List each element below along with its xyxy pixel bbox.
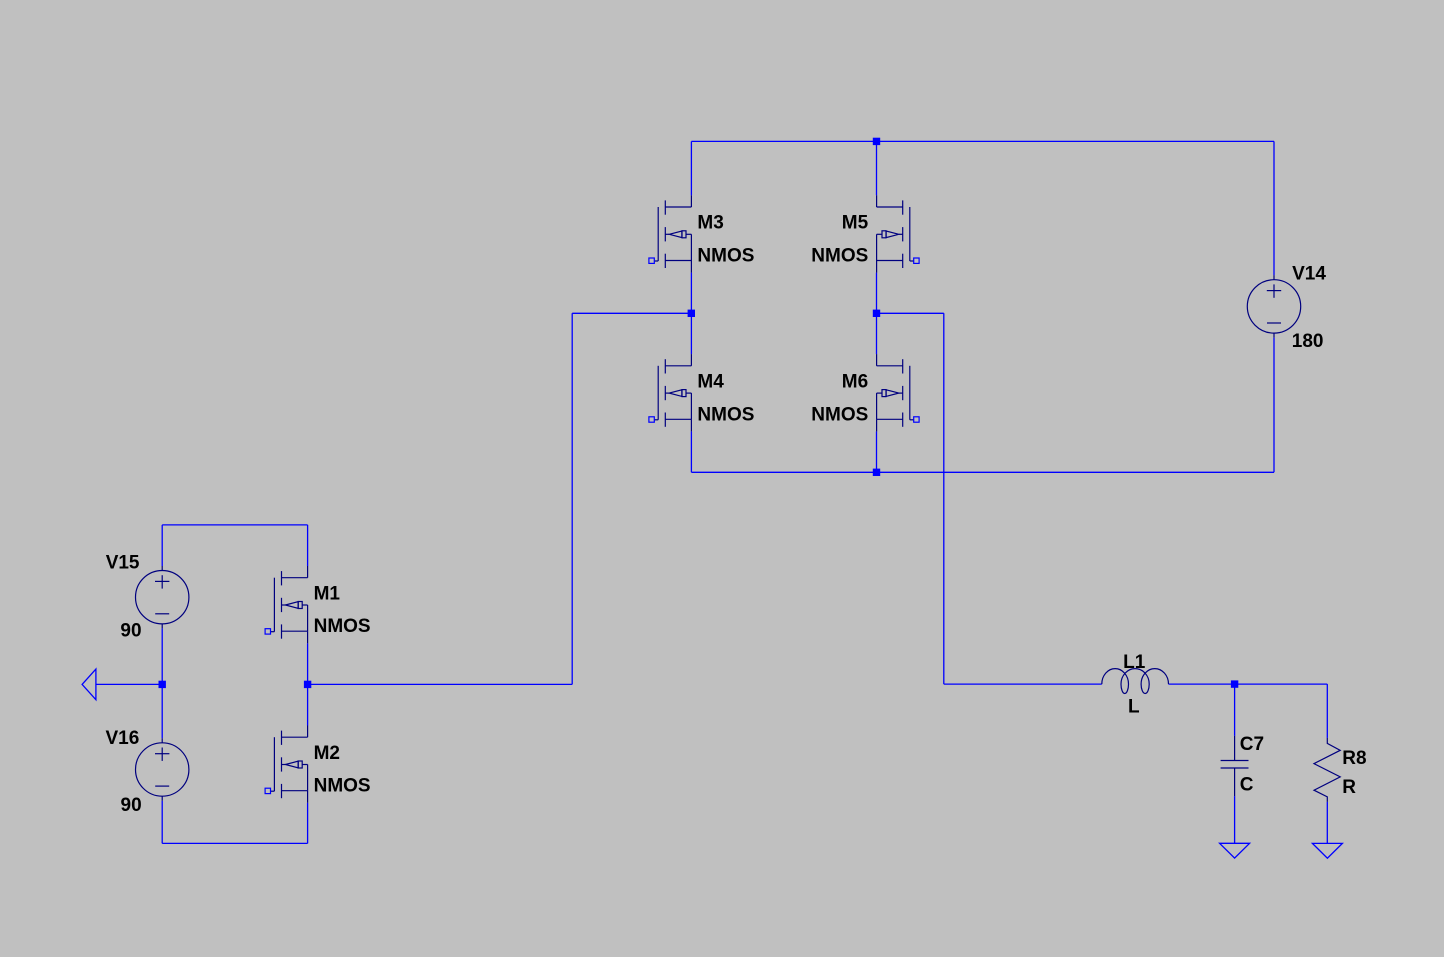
svg-text:M1: M1	[314, 583, 341, 604]
svg-text:C: C	[1240, 774, 1254, 795]
svg-text:NMOS: NMOS	[314, 776, 371, 797]
svg-text:NMOS: NMOS	[697, 404, 754, 425]
svg-text:NMOS: NMOS	[314, 616, 371, 637]
svg-text:M4: M4	[697, 371, 724, 392]
svg-text:R8: R8	[1342, 748, 1366, 769]
svg-text:90: 90	[121, 795, 142, 816]
svg-text:M6: M6	[842, 371, 868, 392]
svg-text:M3: M3	[697, 213, 723, 234]
svg-text:V14: V14	[1292, 264, 1326, 285]
svg-text:M2: M2	[314, 743, 340, 764]
svg-text:180: 180	[1292, 331, 1324, 352]
svg-text:NMOS: NMOS	[811, 404, 868, 425]
svg-text:L: L	[1128, 696, 1140, 717]
svg-text:L1: L1	[1123, 652, 1146, 673]
svg-text:NMOS: NMOS	[697, 246, 754, 267]
svg-text:90: 90	[120, 620, 141, 641]
svg-text:C7: C7	[1240, 734, 1264, 755]
svg-text:NMOS: NMOS	[811, 246, 868, 267]
svg-text:V16: V16	[106, 728, 140, 749]
svg-text:R: R	[1342, 777, 1356, 798]
svg-text:M5: M5	[842, 213, 869, 234]
svg-text:V15: V15	[106, 552, 140, 573]
